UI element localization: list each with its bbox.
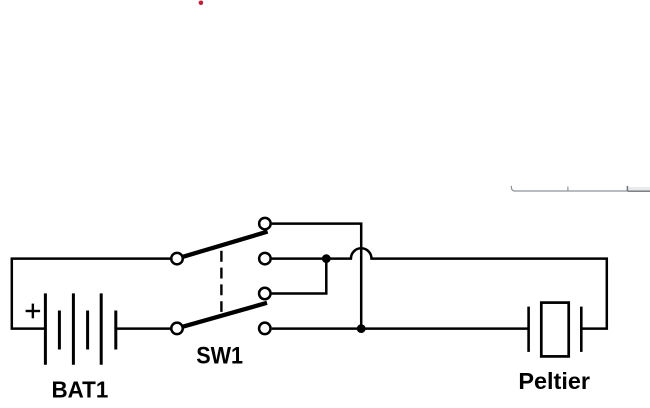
svg-text:SW1: SW1 <box>196 342 243 369</box>
wire battery left loop to upper pole <box>12 259 171 329</box>
wire throw2 right with hop, to right loop and peltier right plate <box>272 248 607 328</box>
red dot artifact <box>199 1 204 6</box>
lower pole contact circle <box>171 323 183 335</box>
battery BAT1 <box>45 293 115 364</box>
peltier left plate <box>527 307 530 352</box>
throw contact 4 <box>259 323 271 335</box>
toolbar segment fill <box>628 187 650 191</box>
wire throw1 right and down <box>272 224 362 329</box>
toolbar edge fragment top-right <box>511 186 650 191</box>
throw contact 3 <box>259 288 271 300</box>
wire battery right terminal to lower pole <box>116 327 171 330</box>
junction node B <box>357 324 366 333</box>
wire throw3 to junction <box>272 259 327 294</box>
lower lever <box>178 303 268 328</box>
upper pole contact circle <box>171 253 183 265</box>
wire throw4 to peltier left plate <box>272 327 529 330</box>
junction node A <box>322 254 331 263</box>
toolbar tick 1 <box>567 187 569 191</box>
toolbar tick 2 <box>626 186 628 191</box>
plus sign <box>26 304 40 319</box>
upper lever <box>178 232 268 259</box>
peltier right plate <box>580 307 583 352</box>
mechanical link dashed <box>220 251 222 312</box>
peltier body <box>541 303 568 357</box>
throw contact 1 <box>259 218 271 230</box>
svg-text:Peltier: Peltier <box>518 368 590 394</box>
throw contact 2 <box>259 253 271 265</box>
svg-text:BAT1: BAT1 <box>52 377 109 403</box>
toolbar right segment underline <box>628 190 650 192</box>
